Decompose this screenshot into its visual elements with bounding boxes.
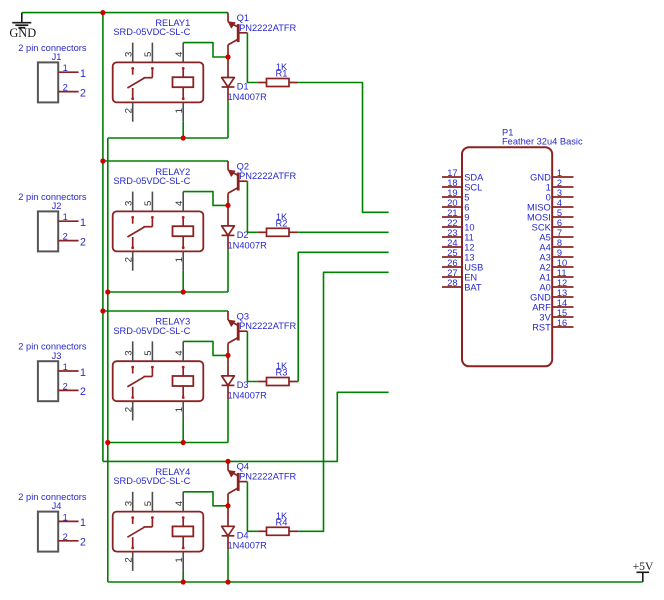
svg-text:GND: GND [530, 172, 551, 182]
svg-text:EN: EN [464, 272, 477, 282]
svg-text:3: 3 [124, 501, 135, 506]
svg-text:SCK: SCK [532, 222, 552, 232]
wire: block2 emitter rail [103, 160, 228, 162]
svg-text:R2: R2 [276, 218, 288, 228]
svg-text:RST: RST [532, 322, 551, 332]
svg-text:10: 10 [464, 222, 474, 232]
svg-text:MISO: MISO [527, 202, 551, 212]
svg-text:1N4007R: 1N4007R [228, 92, 268, 102]
svg-text:5: 5 [143, 201, 154, 206]
svg-text:4: 4 [174, 200, 185, 206]
svg-text:5: 5 [464, 192, 469, 202]
relay RELAY1 SRD-05VDC-SL-C [113, 43, 204, 122]
svg-text:D1: D1 [237, 82, 249, 92]
svg-text:2: 2 [124, 407, 135, 412]
svg-text:4: 4 [557, 198, 562, 208]
svg-text:1: 1 [63, 212, 68, 222]
svg-text:14: 14 [557, 298, 567, 308]
svg-text:20: 20 [447, 198, 457, 208]
junction: relay4 pin1 / bottom wire [181, 579, 186, 584]
svg-text:22: 22 [447, 218, 457, 228]
pin 12 (A0) [552, 286, 573, 288]
svg-text:1: 1 [546, 182, 551, 192]
svg-text:BAT: BAT [464, 282, 482, 292]
svg-text:2: 2 [124, 108, 135, 113]
svg-text:12: 12 [464, 242, 474, 252]
svg-text:2: 2 [557, 178, 562, 188]
svg-text:1: 1 [80, 517, 86, 529]
+5V power symbol [633, 560, 654, 582]
svg-text:J3: J3 [52, 351, 62, 361]
wire: D3 cathode down [227, 399, 229, 443]
pin 14 (ARF) [552, 306, 573, 308]
junction: bottom wire2 / bus2 [105, 289, 110, 294]
svg-text:1: 1 [174, 257, 185, 262]
svg-text:5: 5 [143, 350, 154, 355]
pin 5 (MOSI) [552, 216, 573, 218]
node: Q3 collector / D3 junction [225, 353, 230, 358]
svg-text:6: 6 [464, 202, 469, 212]
svg-text:2: 2 [80, 87, 86, 99]
pin 13 (GND) [552, 296, 573, 298]
svg-text:PN2222ATFR: PN2222ATFR [239, 472, 296, 482]
svg-text:2: 2 [63, 381, 68, 391]
pin 3 (0) [552, 196, 573, 198]
svg-text:28: 28 [447, 278, 457, 288]
svg-text:1: 1 [63, 63, 68, 73]
connector J2 [38, 201, 86, 251]
wire: bottom +5V rail [108, 581, 643, 583]
svg-text:SRD-05VDC-SL-C: SRD-05VDC-SL-C [113, 176, 190, 186]
relay RELAY3 SRD-05VDC-SL-C [113, 341, 204, 420]
svg-text:26: 26 [447, 258, 457, 268]
junction: relay1 pin1 / bottom wire [181, 135, 186, 140]
wire: relay1 pin1 down [182, 122, 184, 138]
svg-text:3: 3 [124, 350, 135, 355]
svg-text:1N4007R: 1N4007R [228, 390, 268, 400]
svg-text:11: 11 [464, 232, 474, 242]
ground [9, 13, 36, 40]
svg-text:MOSI: MOSI [527, 212, 551, 222]
svg-text:3: 3 [124, 201, 135, 206]
svg-text:9: 9 [464, 212, 469, 222]
resistor R3 1K [258, 378, 298, 386]
svg-text:GND: GND [530, 292, 551, 302]
pin 9 (A3) [552, 256, 573, 258]
svg-text:19: 19 [447, 188, 457, 198]
pin 18 (SCL) [442, 186, 462, 188]
relay RELAY4 SRD-05VDC-SL-C [113, 492, 204, 571]
svg-text:2: 2 [80, 386, 86, 398]
svg-text:1: 1 [557, 168, 562, 178]
svg-text:Q3: Q3 [237, 311, 249, 321]
svg-text:27: 27 [447, 268, 457, 278]
svg-text:2: 2 [80, 537, 86, 549]
svg-text:+5V: +5V [633, 560, 654, 573]
svg-text:R1: R1 [276, 69, 288, 79]
junction: bottom wire3 / bus2 [105, 440, 110, 445]
svg-text:11: 11 [557, 268, 567, 278]
svg-text:2: 2 [63, 532, 68, 542]
svg-text:Q1: Q1 [237, 13, 249, 23]
svg-text:2: 2 [63, 232, 68, 242]
resistor R4 1K [258, 527, 298, 535]
diode D3 1N4007R [222, 355, 235, 399]
pin 6 (SCK) [552, 226, 573, 228]
svg-text:R4: R4 [276, 517, 288, 527]
svg-text:6: 6 [557, 218, 562, 228]
svg-text:1: 1 [80, 367, 86, 379]
svg-text:7: 7 [557, 228, 562, 238]
wire: block2 bottom wire [108, 291, 228, 293]
wire: R3 output [298, 252, 388, 381]
svg-text:8: 8 [557, 238, 562, 248]
pin 24 (12) [442, 246, 462, 248]
connector J4 [38, 501, 86, 551]
junction: relay2 pin1 / bottom wire [181, 289, 186, 294]
svg-text:1: 1 [80, 217, 86, 229]
svg-text:21: 21 [447, 208, 457, 218]
junction: rail2 / bus1 [100, 158, 105, 163]
resistor R2 1K [258, 228, 298, 236]
junction: top rail / bus1 [100, 10, 105, 15]
svg-text:PN2222ATFR: PN2222ATFR [239, 321, 296, 331]
wire: vertical bus 1 (GND) [102, 13, 104, 462]
svg-text:13: 13 [464, 252, 474, 262]
wire: Q4 base to R4 [247, 482, 257, 532]
svg-text:SRD-05VDC-SL-C: SRD-05VDC-SL-C [113, 476, 190, 486]
wire: D2 cathode down [227, 249, 229, 292]
pin 20 (6) [442, 206, 462, 208]
svg-text:D4: D4 [237, 530, 249, 540]
svg-text:2: 2 [124, 257, 135, 262]
pin 25 (13) [442, 256, 462, 258]
pin 4 (MISO) [552, 206, 573, 208]
svg-text:SRD-05VDC-SL-C: SRD-05VDC-SL-C [113, 27, 190, 37]
connector P1 Feather 32u4 Basic [442, 147, 574, 366]
wire: relay3 pin4 to Q3 collector [183, 341, 228, 355]
transistor Q1 PN2222ATFR [228, 13, 247, 57]
pin 19 (5) [442, 196, 462, 198]
svg-text:5: 5 [143, 52, 154, 57]
svg-text:SCL: SCL [464, 182, 482, 192]
svg-text:PN2222ATFR: PN2222ATFR [239, 171, 296, 181]
pin 17 (SDA) [442, 176, 462, 178]
svg-text:5: 5 [143, 501, 154, 506]
wire: R2 output [298, 231, 388, 233]
pin 15 (3V) [552, 316, 573, 318]
svg-text:16: 16 [557, 318, 567, 328]
pin 11 (A1) [552, 276, 573, 278]
svg-text:0: 0 [546, 192, 551, 202]
svg-text:Q4: Q4 [237, 462, 249, 472]
wire: block4 emitter rail + extension [103, 392, 389, 461]
junction: Q4 emitter / rail4 [225, 459, 230, 464]
wire: relay1 pin4 to Q1 collector [183, 43, 228, 57]
svg-text:3: 3 [557, 188, 562, 198]
svg-text:J1: J1 [52, 52, 62, 62]
wire: relay4 pin1 down [182, 571, 184, 582]
svg-text:Q2: Q2 [237, 161, 249, 171]
svg-text:A1: A1 [539, 272, 550, 282]
svg-text:2: 2 [124, 557, 135, 562]
svg-text:5: 5 [557, 208, 562, 218]
relay RELAY2 SRD-05VDC-SL-C [113, 192, 204, 271]
wire: relay3 pin1 down [182, 421, 184, 443]
junction: D4 cathode / +5V rail [225, 579, 230, 584]
svg-text:18: 18 [447, 178, 457, 188]
diode D4 1N4007R [222, 506, 235, 550]
transistor Q4 PN2222ATFR [228, 461, 247, 505]
wire: vertical bus 2 (coil return) [107, 138, 109, 582]
diode D2 1N4007R [222, 205, 235, 249]
connector J3 [38, 351, 86, 401]
pin 26 (USB) [442, 266, 462, 268]
svg-text:A0: A0 [539, 282, 550, 292]
resistor R1 1K [258, 79, 298, 87]
svg-text:SDA: SDA [464, 172, 484, 182]
svg-text:1: 1 [80, 68, 86, 80]
svg-text:ARF: ARF [532, 302, 551, 312]
pin 16 (RST) [552, 326, 573, 328]
wire: Q3 base to R3 [247, 331, 257, 381]
svg-text:1: 1 [174, 407, 185, 412]
svg-text:SRD-05VDC-SL-C: SRD-05VDC-SL-C [113, 326, 190, 336]
node: Q4 collector / D4 junction [225, 503, 230, 508]
wire: block3 emitter rail [103, 310, 228, 312]
svg-text:1: 1 [174, 557, 185, 562]
junction: rail3 / bus1 [100, 308, 105, 313]
wire: D1 cathode down [227, 101, 229, 138]
pin 28 (BAT) [442, 286, 462, 288]
svg-text:A3: A3 [539, 252, 550, 262]
svg-text:9: 9 [557, 248, 562, 258]
wire: R4 output [298, 272, 388, 531]
svg-text:4: 4 [174, 350, 185, 356]
svg-text:1: 1 [63, 512, 68, 522]
pin 1 (GND) [552, 176, 573, 178]
svg-text:23: 23 [447, 228, 457, 238]
wire: relay4 pin4 to Q4 collector [183, 492, 228, 506]
junction: relay3 pin1 / bottom wire [181, 440, 186, 445]
svg-text:17: 17 [447, 168, 457, 178]
svg-text:12: 12 [557, 278, 567, 288]
pin 27 (EN) [442, 276, 462, 278]
svg-text:A2: A2 [539, 262, 550, 272]
svg-text:Feather 32u4 Basic: Feather 32u4 Basic [502, 137, 583, 147]
pin 21 (9) [442, 216, 462, 218]
wire: top GND rail [22, 12, 228, 14]
pin 22 (10) [442, 226, 462, 228]
wire: block3 bottom wire [108, 442, 228, 444]
wire: Q2 base to R2 [247, 181, 257, 232]
svg-text:R3: R3 [276, 368, 288, 378]
wire: Q1 base to R1 [247, 33, 257, 83]
svg-text:A4: A4 [539, 242, 550, 252]
wire: block1 bottom wire [108, 137, 228, 139]
svg-text:3: 3 [124, 52, 135, 57]
svg-text:2: 2 [80, 236, 86, 248]
transistor Q3 PN2222ATFR [228, 311, 247, 355]
pin 10 (A2) [552, 266, 573, 268]
node: Q2 collector / D2 junction [225, 203, 230, 208]
pin 2 (1) [552, 186, 573, 188]
svg-text:J2: J2 [52, 201, 62, 211]
svg-text:GND: GND [9, 26, 36, 40]
svg-text:1N4007R: 1N4007R [228, 240, 268, 250]
pin 23 (11) [442, 236, 462, 238]
svg-text:1: 1 [174, 108, 185, 113]
wire: relay2 pin1 down [182, 271, 184, 292]
svg-text:25: 25 [447, 248, 457, 258]
svg-text:2: 2 [63, 83, 68, 93]
transistor Q2 PN2222ATFR [228, 161, 247, 205]
pin 8 (A4) [552, 246, 573, 248]
svg-text:10: 10 [557, 258, 567, 268]
svg-text:15: 15 [557, 308, 567, 318]
wire: relay2 pin4 to Q2 collector [183, 192, 228, 206]
svg-text:1: 1 [63, 362, 68, 372]
svg-text:3V: 3V [539, 312, 551, 322]
svg-text:13: 13 [557, 288, 567, 298]
svg-text:A5: A5 [539, 232, 550, 242]
svg-text:USB: USB [464, 262, 483, 272]
node: Q1 collector / D1 junction [225, 54, 230, 59]
svg-text:24: 24 [447, 238, 457, 248]
connector J1 [38, 52, 86, 102]
wire: R1 output [298, 83, 388, 213]
svg-text:4: 4 [174, 500, 185, 506]
pin 7 (A5) [552, 236, 573, 238]
diode D1 1N4007R [222, 57, 235, 101]
svg-text:J4: J4 [52, 501, 62, 511]
svg-text:4: 4 [174, 51, 185, 57]
svg-text:PN2222ATFR: PN2222ATFR [239, 23, 296, 33]
svg-text:1N4007R: 1N4007R [228, 541, 268, 551]
wire: D4 cathode down [227, 549, 229, 582]
